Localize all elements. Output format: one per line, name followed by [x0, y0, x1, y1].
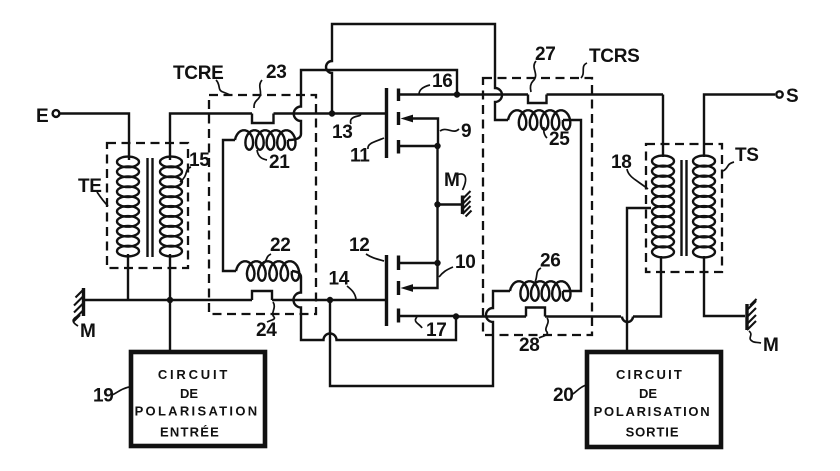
svg-text:E: E	[36, 106, 48, 127]
svg-text:13: 13	[332, 122, 353, 143]
wire joining 21 and 22 left ends	[223, 140, 236, 271]
wire 14 segment TE to gate 12	[170, 299, 387, 301]
svg-text:9: 9	[461, 121, 471, 142]
TS secondary winding	[693, 156, 715, 258]
wire source 11 down to ground node	[436, 146, 438, 263]
wire 13 to MOSFET 11 gate	[274, 112, 388, 114]
TCRS dashed box	[483, 78, 592, 335]
MOSFET 11 source lead	[399, 145, 438, 147]
TE secondary winding 15	[160, 157, 182, 257]
node dot 14/bottom rail	[327, 297, 333, 303]
svg-text:POLARISATION: POLARISATION	[594, 404, 712, 419]
svg-text:19: 19	[93, 386, 114, 407]
svg-text:22: 22	[270, 235, 291, 256]
capacitor 27 (notch down)	[528, 95, 547, 104]
capacitor 23 (series element, notch down)	[252, 114, 274, 124]
svg-text:24: 24	[256, 320, 277, 341]
MOSFET 11 channel segments	[397, 89, 400, 154]
svg-text:M: M	[763, 335, 779, 356]
svg-text:26: 26	[540, 251, 561, 272]
svg-text:TS: TS	[735, 145, 759, 166]
wire to centre ground	[438, 203, 462, 205]
MOSFET 11 gate bar	[385, 88, 388, 158]
svg-text:S: S	[786, 86, 798, 107]
TE primary winding	[117, 157, 139, 257]
TS primary winding 18	[652, 156, 674, 258]
capacitor 24 (series element, notch up)	[252, 291, 272, 300]
wire joining 25 and 26 right ends	[563, 120, 581, 291]
svg-text:DE: DE	[180, 386, 198, 401]
MOSFET 11 substrate arrow	[412, 119, 438, 147]
wire E to TE primary top	[60, 114, 130, 161]
bottom feedback rail	[330, 291, 510, 386]
centre ground M	[461, 196, 464, 215]
svg-text:28: 28	[519, 335, 540, 356]
wire TS secondary top to S	[704, 95, 775, 158]
svg-text:SORTIE: SORTIE	[626, 425, 680, 440]
wire 17 to TS primary bottom	[456, 256, 661, 322]
svg-text:27: 27	[535, 44, 556, 65]
node dot 13/top rail	[329, 110, 335, 116]
svg-text:14: 14	[329, 269, 350, 290]
left ground M	[82, 288, 85, 316]
MOSFET 11 drain lead	[399, 93, 457, 95]
capacitor 28 (notch up)	[526, 308, 545, 317]
svg-text:18: 18	[611, 152, 632, 173]
svg-text:17: 17	[426, 320, 447, 341]
MOSFET 12 source lead / wire 17	[399, 315, 456, 317]
svg-text:M: M	[80, 321, 96, 342]
svg-text:TCRS: TCRS	[589, 46, 640, 67]
svg-text:25: 25	[549, 129, 570, 150]
svg-text:21: 21	[269, 152, 290, 173]
MOSFET 12 channel segments	[397, 256, 400, 323]
terminal S	[776, 91, 782, 97]
wire node to bias box entree	[169, 300, 171, 351]
right ground M	[745, 304, 748, 330]
svg-text:ENTRÉE: ENTRÉE	[160, 425, 220, 440]
svg-text:POLARISATION: POLARISATION	[135, 404, 260, 419]
inductor 25	[508, 110, 570, 129]
tap on TS primary to bias box sortie	[627, 208, 651, 352]
bias box entree	[131, 352, 265, 446]
svg-text:10: 10	[455, 252, 476, 273]
TCRE dashed box	[209, 95, 316, 314]
svg-text:16: 16	[432, 71, 453, 92]
wire 16 drain to TS primary	[457, 95, 663, 158]
inductor 22	[236, 261, 299, 280]
bias box sortie	[587, 352, 721, 447]
svg-text:20: 20	[553, 385, 574, 406]
MOSFET 12 substrate arrow	[412, 263, 438, 288]
transformer TE dashed box	[107, 143, 188, 268]
MOSFET 12 gate bar	[385, 255, 388, 326]
TE secondary bottom to node	[169, 254, 171, 300]
node dot drain 11	[454, 91, 460, 97]
svg-text:CIRCUIT: CIRCUIT	[616, 367, 684, 382]
svg-text:15: 15	[189, 150, 210, 171]
wire TE secondary top to gate line	[170, 114, 252, 161]
MOSFET 12 upper lead to ground chain	[399, 262, 438, 264]
svg-text:12: 12	[349, 235, 370, 256]
svg-text:DE: DE	[639, 386, 657, 401]
svg-text:23: 23	[266, 62, 287, 83]
inductor 26	[510, 281, 571, 300]
wire 21 right end to drain node (hops gate wire)	[288, 70, 457, 140]
svg-text:CIRCUIT: CIRCUIT	[158, 367, 230, 382]
top feedback rail	[326, 24, 508, 120]
transformer TS dashed box	[646, 144, 722, 272]
wire TS secondary bottom to right ground	[704, 256, 745, 316]
wire ground to TE primary bottom	[84, 299, 170, 301]
wire 22 right end to source node (hops gate wire 14)	[292, 271, 456, 340]
TE core	[148, 158, 153, 257]
inductor 21	[235, 130, 296, 149]
TS core	[682, 160, 687, 256]
svg-text:M: M	[444, 170, 460, 191]
